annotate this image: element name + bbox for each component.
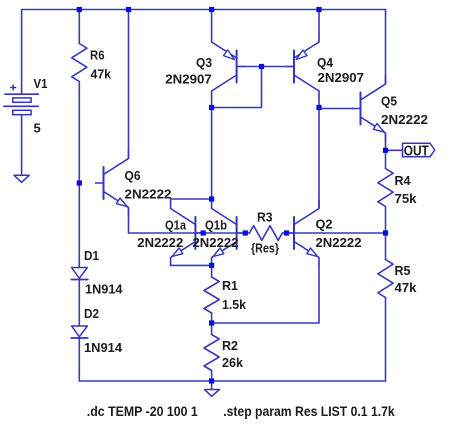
wire Q5 base: [319, 108, 354, 110]
wire Q4 base: [262, 66, 295, 68]
junction Q1a base: [201, 230, 206, 235]
wire Q4 collector to Q2 collector: [318, 100, 320, 208]
wire R5 top lead: [385, 233, 387, 260]
label V1 value 5: [34, 121, 41, 136]
wire Q4 emitter: [318, 10, 320, 34]
svg-text:2N2222: 2N2222: [125, 187, 172, 202]
wire R2 top lead: [211, 323, 213, 335]
directive .step: [223, 403, 395, 419]
junction R1/R2 node: [209, 320, 214, 325]
wire R6 to Q6 base to D1: [78, 82, 80, 268]
label R5: [395, 263, 411, 278]
label Q4: [317, 55, 334, 70]
label Q5: [381, 94, 397, 109]
label R4 value 75k: [395, 191, 418, 206]
wire Q5 collector from rail: [385, 10, 387, 84]
label D2: [84, 306, 99, 321]
junction top rail / Q3 emitter: [209, 7, 214, 12]
svg-text:.dc TEMP -20 100 1: .dc TEMP -20 100 1: [87, 403, 198, 419]
svg-text:Q1b: Q1b: [205, 218, 227, 233]
resistor R5: [378, 260, 393, 298]
wire R4 bottom lead: [385, 207, 387, 234]
wire Q4 collector node to Q5: [318, 108, 320, 109]
svg-text:R6: R6: [90, 48, 105, 63]
junction Q1b base / R3 left: [243, 230, 248, 235]
svg-text:2N2907: 2N2907: [165, 72, 212, 87]
resistor R4: [378, 169, 393, 207]
junction top rail / Q4 emitter: [316, 7, 321, 12]
label R2 value 26k: [222, 355, 244, 370]
svg-text:1.5k: 1.5k: [222, 297, 247, 312]
svg-text:V1: V1: [34, 76, 48, 91]
wire OUT node to flag: [386, 149, 403, 151]
svg-text:{Res}: {Res}: [251, 241, 279, 256]
wire Q2 emitter down: [212, 266, 319, 323]
junction R3 right / Q2 base: [284, 230, 289, 235]
resistor R3: [250, 226, 283, 241]
label Q3: [196, 55, 212, 70]
junction R4/R5 node: [383, 230, 388, 235]
junction Q3 collector node: [209, 105, 214, 110]
wire R1 bottom lead: [211, 313, 213, 323]
svg-text:47k: 47k: [91, 67, 112, 82]
junction OUT node: [383, 148, 388, 153]
wire R1 top lead: [211, 265, 213, 277]
svg-text:2N2222: 2N2222: [137, 235, 183, 250]
svg-text:.step param Res LIST 0.1 1.7k: .step param Res LIST 0.1 1.7k: [223, 403, 395, 419]
transistor Q2: [286, 200, 319, 266]
label Q6 value 2N2222: [125, 187, 172, 202]
diode D2: [71, 326, 88, 338]
diode D1: [71, 268, 88, 280]
junction top rail / R6: [77, 7, 82, 12]
wire R4 top lead: [385, 150, 387, 168]
label R1: [222, 278, 238, 293]
wire base rail to R4/R5 node: [287, 232, 386, 234]
svg-text:Q5: Q5: [381, 94, 397, 109]
wire R5 bottom lead: [385, 298, 387, 382]
transistor Q5: [353, 76, 386, 142]
transistor Q1b: [212, 201, 245, 266]
wire center column: [211, 108, 213, 200]
wire D2 to bottom rail: [78, 338, 80, 381]
wire Q3 collector: [211, 100, 213, 108]
junction Q1 emitters / R1 top: [209, 263, 214, 268]
label R6: [90, 48, 105, 63]
label Q2: [316, 217, 333, 232]
junction Q3/Q4 base tie: [259, 64, 264, 69]
ground (bottom): [205, 390, 220, 397]
junction Q1 collectors node: [209, 196, 214, 201]
wire top rail: [22, 9, 386, 11]
svg-text:Q3: Q3: [196, 55, 212, 70]
transistor Q3 (PNP): [212, 34, 245, 100]
wire ground stub: [211, 381, 213, 390]
svg-text:2N2907: 2N2907: [318, 70, 365, 85]
svg-text:5: 5: [34, 121, 41, 136]
svg-text:R2: R2: [222, 338, 238, 353]
svg-text:2N2222: 2N2222: [381, 112, 428, 127]
label Q4 value 2N2907: [318, 70, 365, 85]
svg-text:D1: D1: [84, 248, 99, 263]
label Q1a: [165, 218, 187, 233]
label Q1a value 2N2222: [137, 235, 183, 250]
wire Q3 emitter: [211, 10, 213, 34]
wire base tie down: [212, 67, 262, 108]
wire R6 top lead: [78, 10, 80, 44]
directive .dc: [87, 403, 198, 419]
label D2 value 1N914: [84, 340, 123, 355]
svg-text:OUT: OUT: [404, 144, 429, 160]
svg-text:R3: R3: [257, 210, 273, 225]
svg-text:26k: 26k: [222, 355, 244, 370]
wire V1 bottom: [21, 115, 23, 176]
svg-text:Q1a: Q1a: [165, 218, 187, 233]
junction Q6 base: [77, 180, 82, 185]
svg-text:Q4: Q4: [317, 55, 334, 70]
svg-text:47k: 47k: [395, 280, 418, 295]
svg-text:R4: R4: [395, 173, 412, 188]
wire V1 top: [21, 10, 23, 95]
transistor Q4 (PNP): [286, 34, 319, 100]
junction Q4 collector / Q5 base: [316, 105, 321, 110]
transistor Q6: [96, 150, 129, 216]
svg-text:1N914: 1N914: [84, 340, 123, 355]
label Q1b value 2N2222: [193, 235, 239, 250]
label Q1b: [205, 218, 227, 233]
wire Q6 emitter to base rail: [129, 208, 246, 233]
label D1 value 1N914: [85, 282, 123, 297]
svg-text:D2: D2: [84, 306, 99, 321]
wire R3 left lead: [245, 232, 249, 234]
wire Q3 base tie: [237, 66, 262, 68]
svg-text:R5: R5: [395, 263, 411, 278]
label R3 value {Res}: [251, 241, 279, 256]
svg-text:75k: 75k: [395, 191, 418, 206]
wire Q1a collector: [171, 199, 212, 201]
svg-text:Q2: Q2: [316, 217, 333, 232]
label Q3 value 2N2907: [165, 72, 212, 87]
wire Q1a emitter: [171, 264, 212, 266]
label R3: [257, 210, 273, 225]
label R5 value 47k: [395, 280, 418, 295]
wire R3 right lead: [282, 232, 286, 234]
label R1 value 1.5k: [222, 297, 247, 312]
wire D1 to D2: [78, 280, 80, 327]
wire bottom rail: [79, 380, 385, 382]
resistor R6: [72, 44, 87, 82]
label R6 value 47k: [91, 67, 112, 82]
svg-text:2N2222: 2N2222: [193, 235, 239, 250]
wire R2 bottom lead: [211, 371, 213, 382]
label Q6: [125, 168, 141, 183]
transistor Q1a: [171, 201, 204, 266]
resistor R1: [204, 277, 219, 313]
label Q2 value 2N2222: [316, 235, 362, 250]
wire Q5 emitter to OUT node: [385, 134, 387, 151]
label Q5 value 2N2222: [381, 112, 428, 127]
battery V1: [4, 85, 38, 115]
junction top rail / Q6 collector: [126, 7, 131, 12]
svg-text:Q6: Q6: [125, 168, 141, 183]
label D1: [84, 248, 99, 263]
svg-text:2N2222: 2N2222: [316, 235, 362, 250]
label V1: [34, 76, 48, 91]
svg-text:1N914: 1N914: [85, 282, 123, 297]
resistor R2: [204, 335, 219, 371]
label R2: [222, 338, 238, 353]
svg-text:R1: R1: [222, 278, 238, 293]
junction bottom rail / ground: [209, 378, 214, 383]
label R4: [395, 173, 412, 188]
flag OUT: [403, 143, 435, 159]
wire Q6 collector: [128, 10, 130, 159]
ground (V1): [14, 175, 29, 182]
